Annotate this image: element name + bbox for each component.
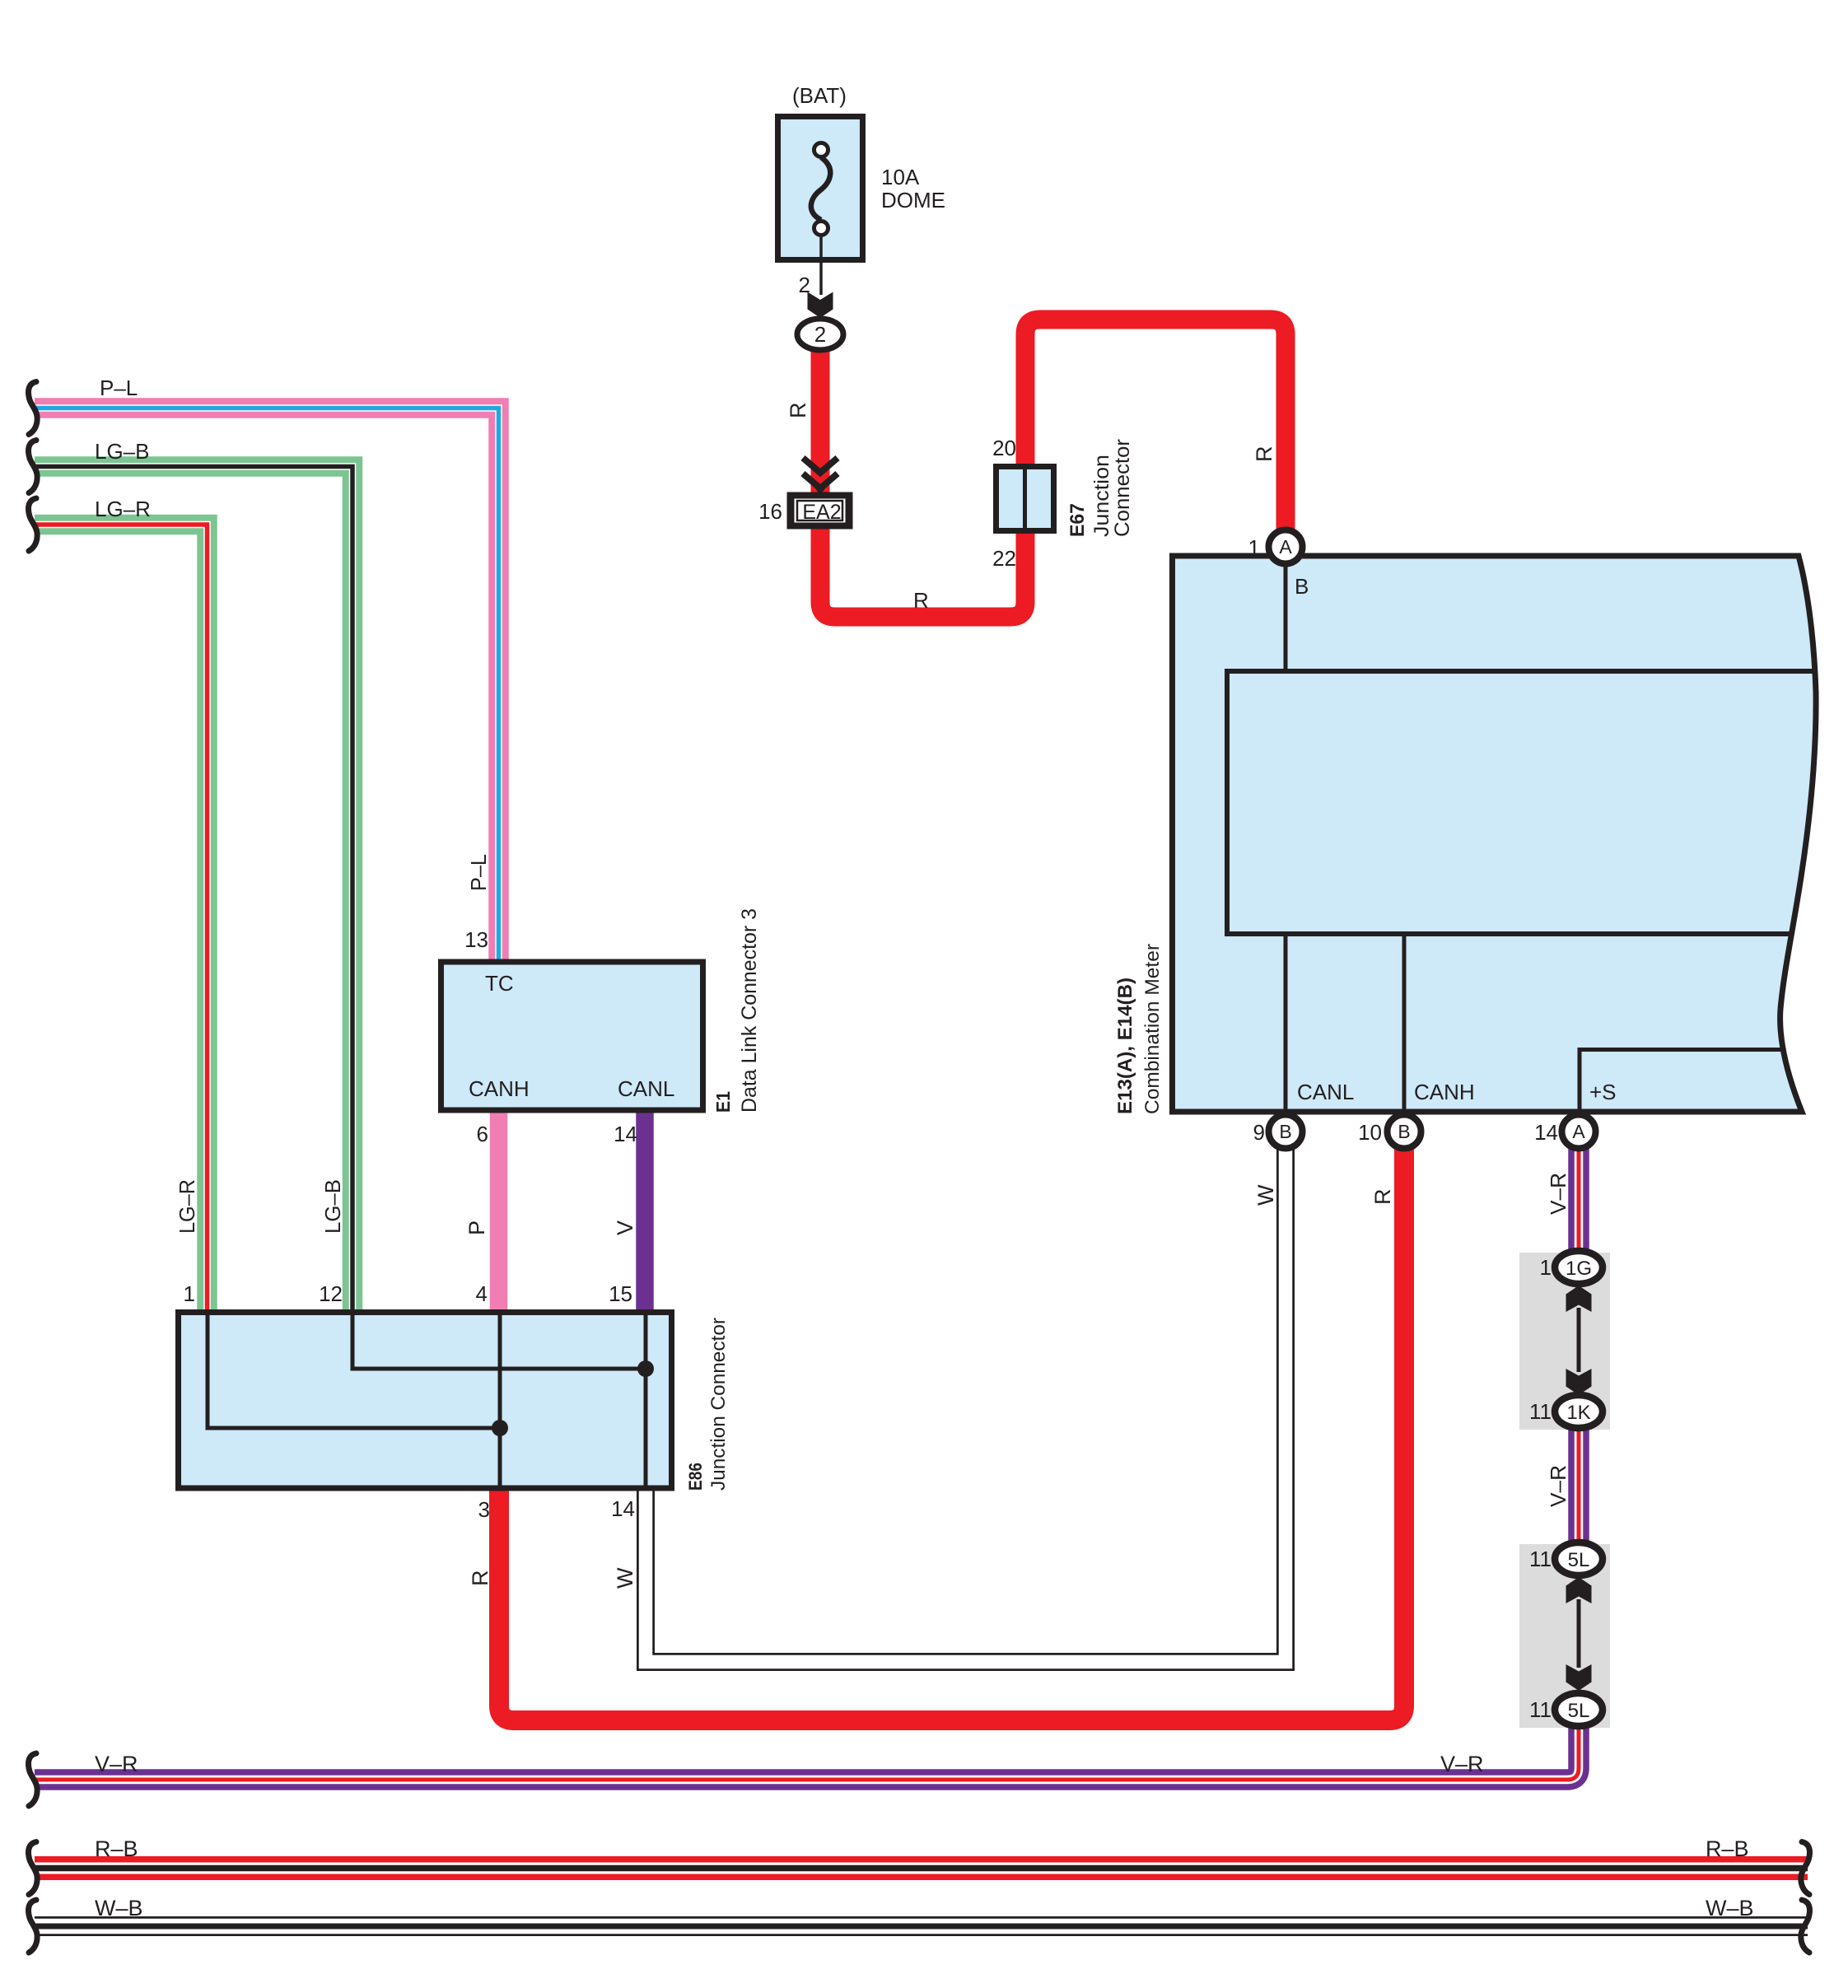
svg-text:V–R: V–R [95,1752,138,1776]
svg-text:V: V [613,1220,637,1235]
svg-text:B: B [1295,574,1309,599]
svg-text:5L: 5L [1568,1549,1590,1571]
svg-text:R: R [1252,446,1276,463]
svg-text:CANL: CANL [618,1076,674,1101]
svg-text:10: 10 [1358,1120,1382,1145]
svg-text:E13(A), E14(B): E13(A), E14(B) [1114,978,1136,1114]
svg-text:22: 22 [992,546,1016,571]
svg-text:Data Link Connector 3: Data Link Connector 3 [738,908,761,1113]
svg-text:6: 6 [477,1122,488,1146]
svg-text:LG–B: LG–B [95,439,150,464]
svg-text:E67: E67 [1066,503,1089,537]
svg-text:LG–R: LG–R [95,497,151,521]
svg-text:15: 15 [609,1281,632,1306]
svg-text:Connector: Connector [1111,439,1134,537]
svg-text:E86: E86 [685,1463,706,1491]
svg-text:14: 14 [611,1496,635,1521]
svg-text:A: A [1279,536,1292,558]
svg-text:EA2: EA2 [802,501,841,524]
svg-text:P: P [464,1220,489,1235]
svg-text:16: 16 [758,499,782,524]
svg-text:9: 9 [1253,1120,1265,1145]
svg-text:W: W [613,1567,637,1589]
svg-text:10A: 10A [881,165,920,189]
svg-text:3: 3 [478,1497,490,1522]
svg-text:W–B: W–B [95,1896,143,1920]
svg-text:TC: TC [485,971,514,996]
svg-text:DOME: DOME [881,188,945,212]
svg-text:V–R: V–R [1546,1465,1570,1507]
svg-text:11: 11 [1529,1547,1552,1571]
svg-text:11: 11 [1529,1399,1552,1424]
svg-text:R–B: R–B [95,1836,138,1861]
svg-text:W–B: W–B [1706,1896,1754,1920]
svg-text:12: 12 [319,1281,343,1306]
svg-text:20: 20 [992,436,1016,460]
svg-text:14: 14 [614,1122,637,1146]
svg-text:LG–B: LG–B [320,1179,345,1234]
svg-text:P–L: P–L [466,854,491,891]
svg-text:W: W [1253,1184,1278,1206]
svg-text:R: R [1370,1189,1395,1206]
svg-text:E1: E1 [712,1091,734,1113]
svg-text:B: B [1398,1121,1410,1142]
svg-text:R: R [913,588,929,613]
svg-text:1K: 1K [1566,1402,1590,1424]
svg-text:LG–R: LG–R [175,1179,199,1234]
svg-text:R–B: R–B [1706,1836,1749,1861]
svg-text:2: 2 [799,273,810,297]
svg-text:4: 4 [476,1281,488,1306]
svg-text:1G: 1G [1566,1258,1592,1280]
svg-text:14: 14 [1534,1120,1558,1145]
svg-text:1: 1 [1248,535,1260,560]
svg-text:+S: +S [1589,1080,1617,1104]
svg-text:(BAT): (BAT) [792,83,847,108]
svg-text:Combination Meter: Combination Meter [1141,944,1164,1114]
svg-text:13: 13 [464,927,488,952]
svg-text:Junction Connector: Junction Connector [707,1318,730,1491]
svg-text:CANL: CANL [1297,1080,1354,1104]
svg-text:11: 11 [1529,1697,1552,1722]
svg-text:Junction: Junction [1090,455,1113,537]
svg-text:B: B [1279,1121,1291,1142]
svg-text:CANH: CANH [469,1076,530,1101]
svg-text:1: 1 [1540,1255,1552,1280]
svg-text:A: A [1572,1121,1585,1142]
svg-text:R: R [786,403,810,419]
svg-text:P–L: P–L [100,376,138,400]
svg-text:V–R: V–R [1546,1173,1570,1215]
svg-text:CANH: CANH [1414,1080,1475,1104]
svg-text:R: R [468,1570,492,1587]
svg-text:2: 2 [814,322,826,347]
svg-text:V–R: V–R [1440,1752,1484,1776]
svg-text:1: 1 [184,1281,195,1306]
svg-text:5L: 5L [1568,1700,1590,1722]
